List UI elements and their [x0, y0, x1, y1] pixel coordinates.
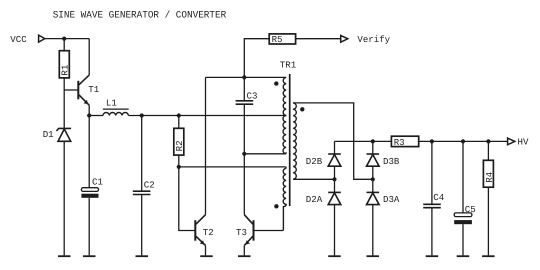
svg-text:T3: T3	[236, 227, 247, 238]
svg-text:VCC: VCC	[10, 34, 27, 45]
node junction right chain mid	[371, 177, 375, 181]
node junction right chain top / R3	[371, 139, 375, 143]
capacitor C2	[133, 116, 155, 256]
wire secondary top to right chain	[293, 103, 373, 179]
wire T2 collector top rail	[206, 76, 287, 78]
svg-text:R2: R2	[174, 140, 185, 151]
svg-text:L1: L1	[106, 98, 117, 109]
svg-text:R5: R5	[272, 34, 283, 45]
transistor T1	[64, 39, 100, 116]
svg-text:D2A: D2A	[306, 194, 323, 205]
svg-text:C3: C3	[247, 90, 258, 101]
ground (C5)	[457, 255, 470, 257]
wire HV rail left	[335, 140, 392, 142]
node junction C3 bottom / T3 collector / winding B	[242, 152, 246, 156]
resistor R4	[483, 141, 494, 255]
svg-text:T2: T2	[203, 227, 214, 238]
transformer TR1	[274, 60, 304, 231]
wire junction to winding B bottom	[244, 152, 286, 154]
svg-text:D2B: D2B	[306, 156, 323, 167]
diode D3B	[367, 141, 400, 192]
ground (D1)	[58, 255, 71, 257]
svg-text:R4: R4	[484, 172, 495, 183]
node junction VCC/R1	[62, 37, 66, 41]
svg-text:C5: C5	[465, 204, 476, 215]
primary winding A (upper)	[283, 77, 286, 115]
wire R2 bottom to feedback winding top	[179, 167, 286, 169]
svg-text:C2: C2	[144, 180, 155, 191]
ground (C4)	[426, 255, 439, 257]
inductor L1	[103, 98, 129, 116]
node VCC input arrow	[39, 35, 45, 42]
svg-text:C4: C4	[433, 192, 444, 203]
secondary winding	[293, 103, 296, 179]
ground (T3)	[238, 255, 251, 257]
primary feedback winding C (lower)	[283, 168, 286, 230]
transistor T3	[236, 154, 283, 256]
phase dot primary top	[274, 81, 278, 85]
node junction R2 top	[177, 113, 181, 117]
svg-text:D3B: D3B	[383, 156, 400, 167]
node junction left chain mid	[332, 177, 336, 181]
svg-text:R3: R3	[394, 137, 405, 148]
diode D2A	[306, 192, 341, 255]
wire HV rail right	[419, 140, 508, 142]
svg-text:Verify: Verify	[357, 34, 390, 45]
ground (D3A)	[367, 255, 380, 257]
node junction C2 tap	[140, 113, 144, 117]
ground (C2)	[136, 255, 149, 257]
wire VCC feed top	[45, 38, 89, 40]
node Verify output arrow	[341, 35, 348, 42]
svg-text:T1: T1	[88, 84, 99, 95]
primary winding B (middle)	[283, 116, 286, 154]
svg-text:TR1: TR1	[280, 60, 297, 71]
resistor R3	[391, 136, 418, 148]
svg-text:SINE WAVE GENERATOR / CONVERTE: SINE WAVE GENERATOR / CONVERTER	[53, 10, 227, 21]
transistor T2	[195, 77, 213, 255]
node junction C5	[461, 139, 465, 143]
phase dot primary bottom	[274, 204, 278, 208]
ground (R4)	[482, 255, 495, 257]
resistor R2	[174, 116, 185, 167]
wire emitter to L1	[89, 115, 103, 117]
node junction C4	[430, 139, 434, 143]
capacitor C4	[423, 141, 444, 255]
ground (D2A)	[328, 255, 341, 257]
node junction R4	[486, 139, 490, 143]
ground (T2)	[200, 255, 213, 257]
wire secondary bottom to left chain	[293, 178, 334, 180]
diode D3A	[367, 192, 400, 255]
phase dot secondary top	[300, 107, 304, 111]
node HV output arrow	[508, 138, 515, 145]
svg-text:R1: R1	[60, 64, 71, 75]
node junction R2 bottom	[177, 165, 181, 169]
svg-text:D3A: D3A	[383, 194, 400, 205]
ground (C1)	[83, 255, 96, 257]
svg-text:D1: D1	[43, 129, 54, 140]
wire R2 bottom to T2 base	[179, 167, 195, 231]
capacitor C5 (electrolytic)	[454, 141, 476, 255]
resistor R1	[59, 39, 70, 90]
svg-text:C1: C1	[92, 176, 103, 187]
wire L1 to transformer tap	[128, 115, 286, 117]
transformer core	[289, 74, 291, 206]
diode D1 (zener)	[43, 90, 71, 255]
node junction C3/R5/primary top	[242, 75, 246, 79]
diode D2B	[306, 141, 341, 192]
capacitor C1 (electrolytic)	[81, 116, 103, 256]
capacitor C3	[236, 77, 258, 153]
svg-text:HV: HV	[518, 136, 529, 147]
node junction T1 emitter / L1 / C1	[87, 113, 91, 117]
resistor R5	[244, 34, 340, 78]
